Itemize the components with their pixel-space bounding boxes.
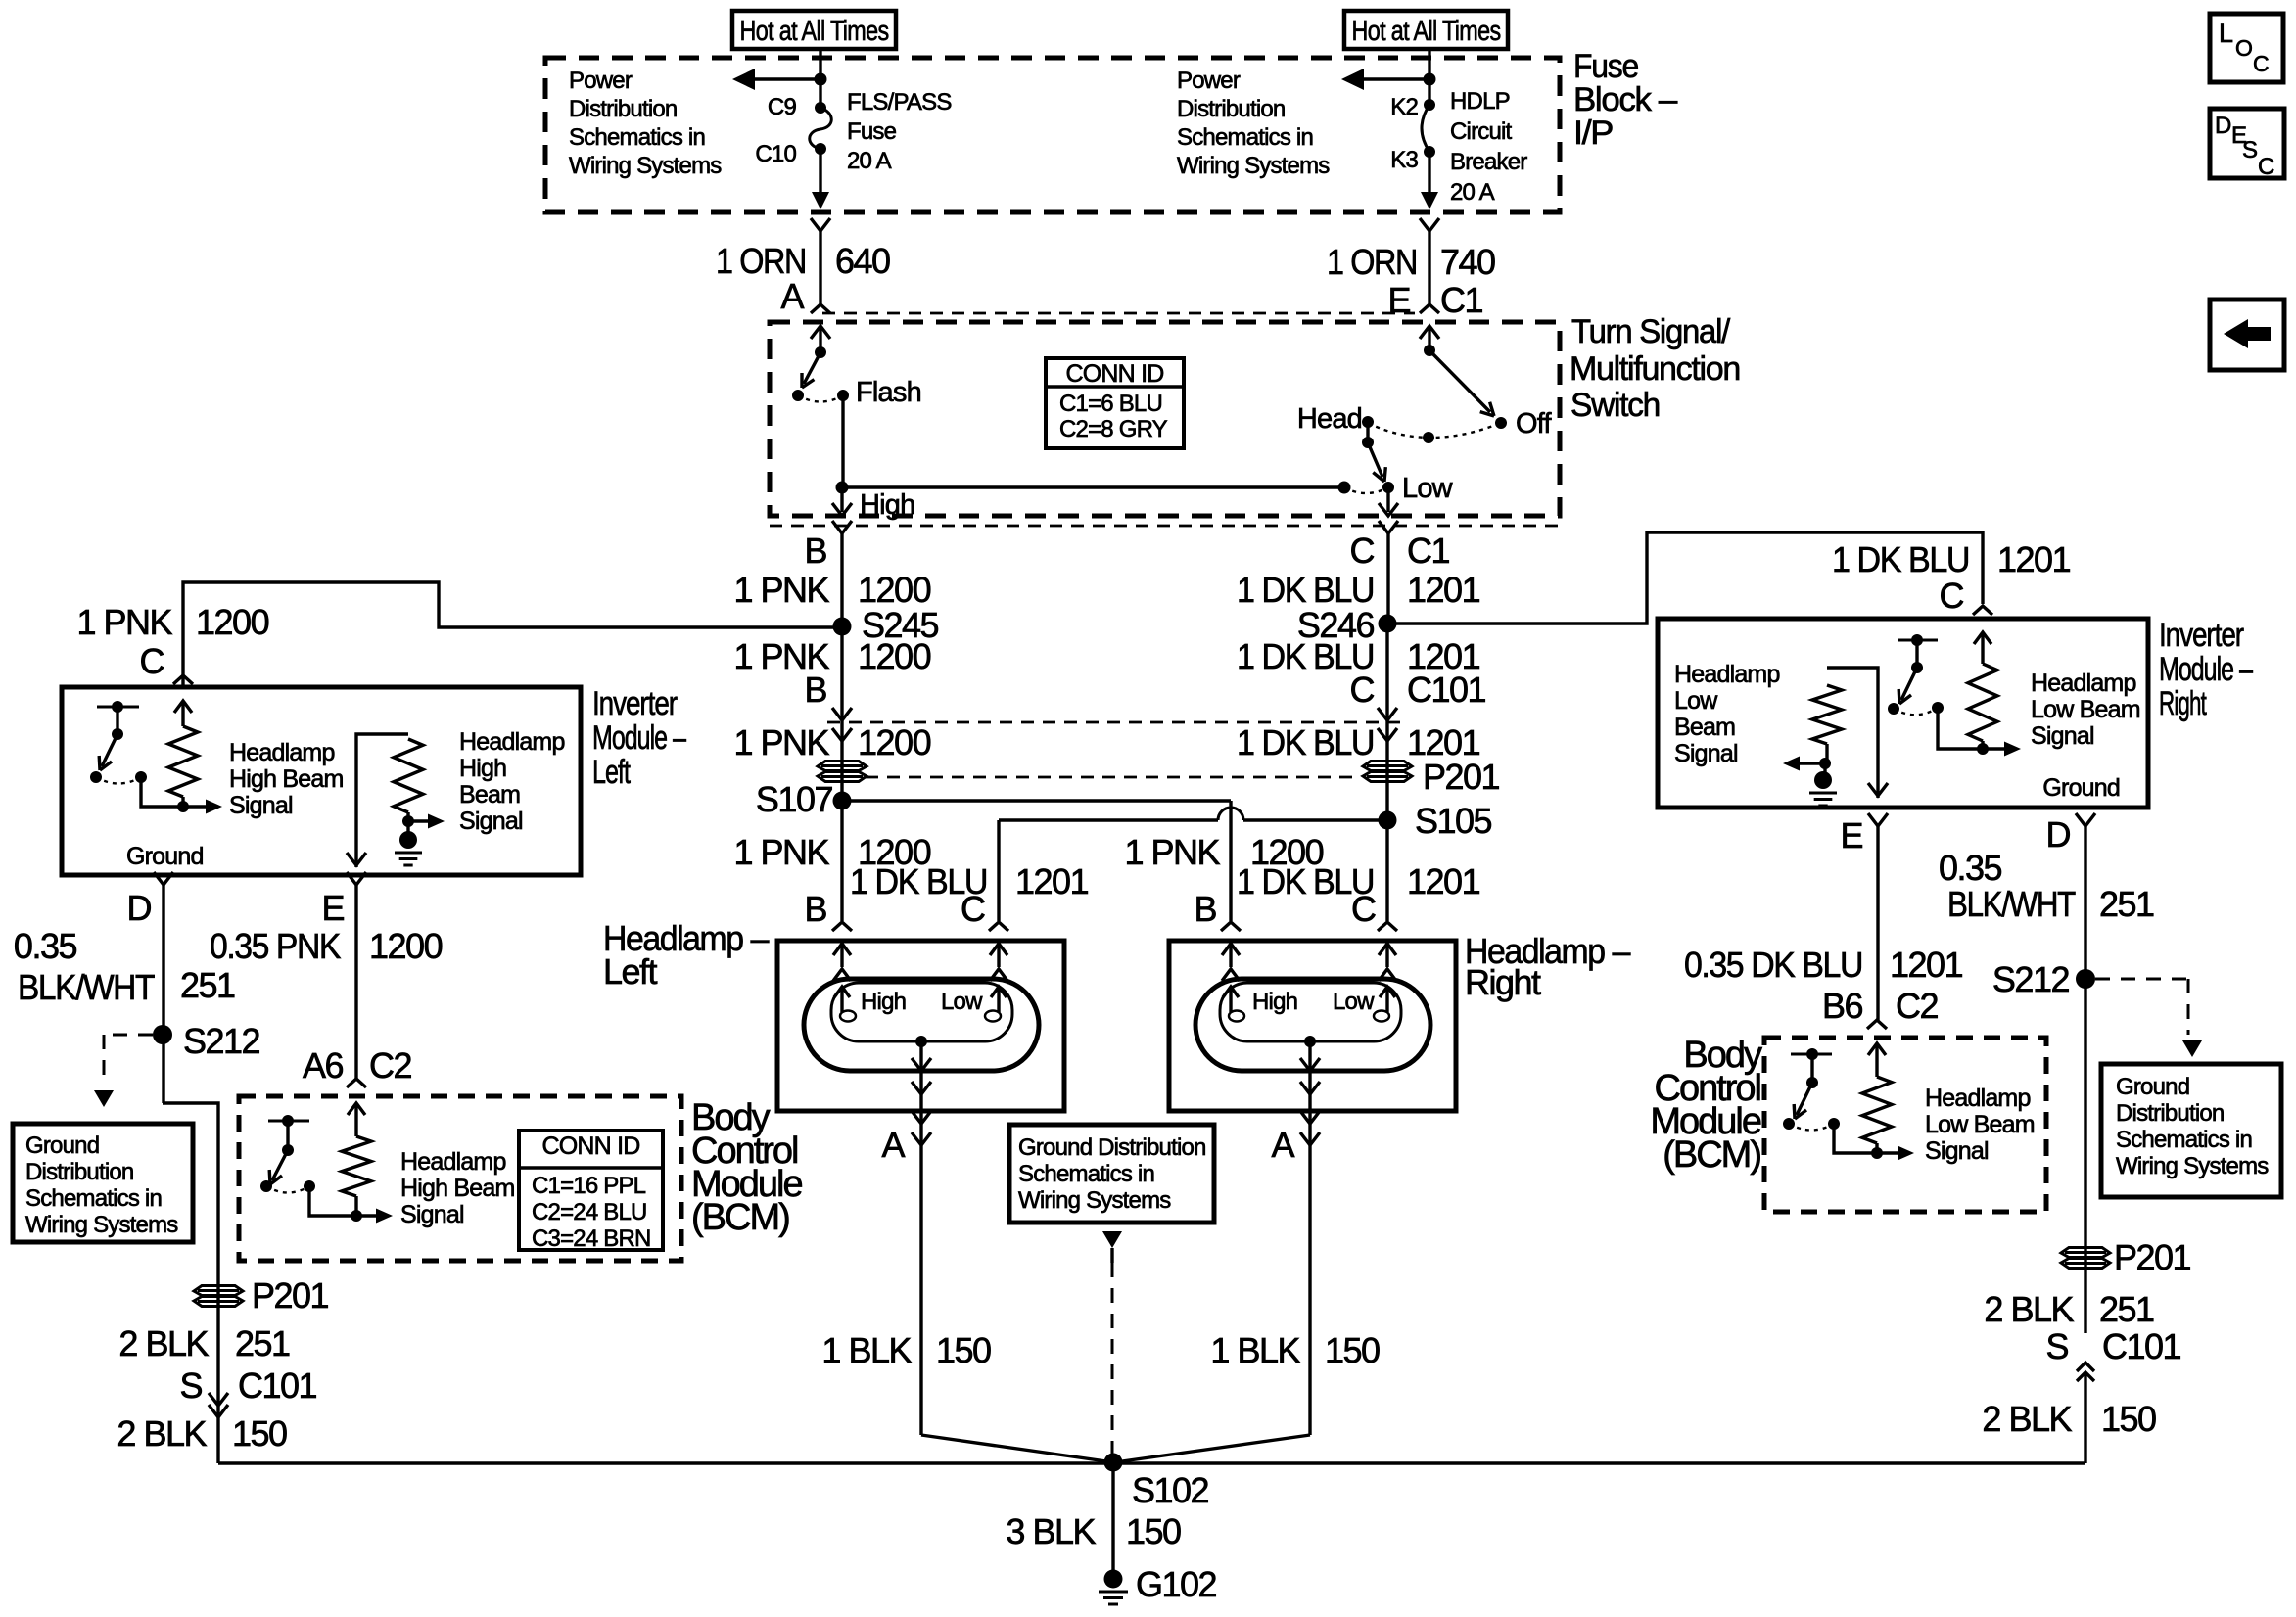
svg-text:1 BLK: 1 BLK <box>1210 1330 1300 1370</box>
svg-text:S: S <box>2242 137 2257 163</box>
svg-text:Signal: Signal <box>459 808 523 835</box>
svg-text:Wiring Systems: Wiring Systems <box>25 1212 178 1238</box>
svg-text:B: B <box>804 670 826 710</box>
svg-text:1 ORN: 1 ORN <box>716 241 806 281</box>
svg-text:1200: 1200 <box>858 722 931 762</box>
svg-text:251: 251 <box>180 965 235 1005</box>
svg-text:S107: S107 <box>756 779 833 819</box>
svg-text:Signal: Signal <box>1925 1137 1989 1165</box>
svg-text:Inverter: Inverter <box>2159 617 2244 654</box>
svg-text:2 BLK: 2 BLK <box>1982 1399 2072 1439</box>
svg-text:1 PNK: 1 PNK <box>733 722 829 762</box>
svg-text:(BCM): (BCM) <box>691 1197 789 1238</box>
svg-text:S102: S102 <box>1132 1470 1209 1510</box>
svg-text:C1=6 BLU: C1=6 BLU <box>1059 391 1162 417</box>
svg-text:Wiring Systems: Wiring Systems <box>1177 153 1330 179</box>
svg-text:Wiring Systems: Wiring Systems <box>1018 1187 1171 1214</box>
svg-text:1 BLK: 1 BLK <box>821 1330 912 1370</box>
svg-text:Fuse: Fuse <box>1573 48 1638 85</box>
svg-text:0.35: 0.35 <box>1939 848 2002 888</box>
svg-text:C2: C2 <box>369 1045 411 1086</box>
svg-text:Ground: Ground <box>2042 774 2120 802</box>
svg-text:Low Beam: Low Beam <box>2031 696 2140 723</box>
svg-text:HDLP: HDLP <box>1450 88 1510 115</box>
svg-text:1 ORN: 1 ORN <box>1327 242 1417 282</box>
svg-text:C1: C1 <box>1440 280 1482 320</box>
svg-text:1200: 1200 <box>858 636 931 676</box>
svg-text:C101: C101 <box>1407 670 1486 710</box>
svg-text:Head: Head <box>1297 403 1362 435</box>
svg-text:Power: Power <box>569 68 633 94</box>
svg-text:Turn Signal/: Turn Signal/ <box>1571 313 1731 350</box>
svg-text:A: A <box>1271 1125 1294 1165</box>
svg-text:Beam: Beam <box>1674 714 1735 741</box>
svg-text:C: C <box>140 641 164 681</box>
svg-text:Signal: Signal <box>400 1201 464 1228</box>
svg-text:BLK/WHT: BLK/WHT <box>1947 884 2076 924</box>
svg-text:Distribution: Distribution <box>1177 96 1285 122</box>
svg-text:Beam: Beam <box>459 781 520 808</box>
svg-text:High: High <box>860 489 914 521</box>
svg-text:1 DK BLU: 1 DK BLU <box>1237 570 1374 610</box>
svg-text:S: S <box>179 1365 202 1406</box>
svg-text:Breaker: Breaker <box>1450 149 1527 175</box>
svg-text:740: 740 <box>1440 242 1495 282</box>
svg-text:0.35 PNK: 0.35 PNK <box>210 926 341 966</box>
svg-text:Low: Low <box>1333 989 1375 1015</box>
svg-text:1 DK BLU: 1 DK BLU <box>1237 722 1374 762</box>
svg-text:(BCM): (BCM) <box>1663 1134 1760 1176</box>
svg-text:Headlamp: Headlamp <box>1674 661 1780 688</box>
svg-text:A: A <box>780 276 804 316</box>
svg-text:1200: 1200 <box>369 926 443 966</box>
svg-text:251: 251 <box>2099 884 2154 924</box>
svg-text:Left: Left <box>592 754 631 791</box>
svg-text:Switch: Switch <box>1570 387 1660 424</box>
svg-text:I/P: I/P <box>1573 115 1613 152</box>
svg-text:150: 150 <box>1325 1330 1380 1370</box>
svg-text:251: 251 <box>2099 1289 2154 1329</box>
svg-text:Flash: Flash <box>856 377 921 408</box>
svg-text:Headlamp: Headlamp <box>459 728 565 756</box>
svg-text:Low: Low <box>1402 473 1454 504</box>
svg-text:High: High <box>861 989 906 1015</box>
svg-text:D: D <box>127 888 152 928</box>
svg-text:B6: B6 <box>1822 986 1863 1026</box>
svg-text:251: 251 <box>235 1323 290 1363</box>
svg-text:Power: Power <box>1177 68 1241 94</box>
svg-text:C: C <box>1351 889 1376 929</box>
svg-text:Schematics in: Schematics in <box>2116 1127 2252 1153</box>
svg-text:CONN ID: CONN ID <box>1066 360 1164 388</box>
svg-text:E: E <box>321 888 344 928</box>
svg-text:High: High <box>1252 989 1297 1015</box>
svg-text:K3: K3 <box>1390 147 1418 173</box>
svg-text:P201: P201 <box>2114 1237 2191 1277</box>
svg-text:C: C <box>1940 576 1964 616</box>
svg-text:1 PNK: 1 PNK <box>733 570 829 610</box>
svg-text:C10: C10 <box>755 141 796 167</box>
svg-text:B: B <box>1194 889 1216 929</box>
svg-text:1 DK BLU: 1 DK BLU <box>1832 539 1969 579</box>
svg-text:640: 640 <box>835 241 890 281</box>
svg-text:0.35 DK BLU: 0.35 DK BLU <box>1684 945 1862 985</box>
svg-text:Schematics in: Schematics in <box>569 124 705 151</box>
svg-text:Block –: Block – <box>1573 81 1677 118</box>
svg-text:Headlamp: Headlamp <box>1925 1085 2031 1112</box>
svg-text:1201: 1201 <box>1997 539 2071 579</box>
svg-text:Schematics in: Schematics in <box>25 1185 162 1212</box>
svg-text:Ground: Ground <box>126 843 204 870</box>
svg-text:Ground: Ground <box>2116 1074 2189 1100</box>
svg-text:20 A: 20 A <box>1450 179 1495 206</box>
svg-text:Hot at All Times: Hot at All Times <box>1352 16 1501 47</box>
svg-text:Wiring Systems: Wiring Systems <box>2116 1153 2269 1179</box>
svg-text:FLS/PASS: FLS/PASS <box>847 89 952 115</box>
svg-text:C2=8 GRY: C2=8 GRY <box>1059 416 1168 442</box>
svg-text:Right: Right <box>2159 685 2207 722</box>
svg-text:O: O <box>2235 35 2252 61</box>
svg-text:Fuse: Fuse <box>847 118 897 145</box>
svg-text:Schematics in: Schematics in <box>1177 124 1313 151</box>
svg-text:Wiring Systems: Wiring Systems <box>569 153 722 179</box>
svg-text:S212: S212 <box>183 1021 260 1061</box>
svg-text:S212: S212 <box>1992 959 2070 999</box>
svg-text:D: D <box>2046 814 2071 855</box>
svg-text:1201: 1201 <box>1015 861 1089 901</box>
svg-text:C2=24 BLU: C2=24 BLU <box>532 1199 647 1225</box>
svg-text:C3=24 BRN: C3=24 BRN <box>532 1225 651 1252</box>
svg-text:C: C <box>2258 154 2274 180</box>
svg-text:High Beam: High Beam <box>400 1175 514 1202</box>
svg-text:2 BLK: 2 BLK <box>117 1413 207 1454</box>
svg-text:Distribution: Distribution <box>2116 1100 2224 1127</box>
svg-text:C: C <box>2253 51 2269 76</box>
svg-text:Distribution: Distribution <box>25 1159 133 1185</box>
svg-text:Headlamp: Headlamp <box>229 739 335 766</box>
svg-text:Circuit: Circuit <box>1450 118 1513 145</box>
svg-text:B: B <box>804 531 826 571</box>
svg-text:C1: C1 <box>1407 531 1449 571</box>
svg-text:150: 150 <box>936 1330 991 1370</box>
svg-text:C: C <box>961 889 985 929</box>
svg-text:Headlamp: Headlamp <box>400 1148 506 1176</box>
svg-text:C101: C101 <box>2102 1326 2181 1366</box>
svg-text:P201: P201 <box>252 1275 329 1316</box>
svg-text:1201: 1201 <box>1407 570 1480 610</box>
svg-text:A6: A6 <box>303 1045 344 1086</box>
svg-text:Ground Distribution: Ground Distribution <box>1018 1134 1206 1161</box>
svg-text:Schematics in: Schematics in <box>1018 1161 1154 1187</box>
svg-text:1 PNK: 1 PNK <box>1124 832 1220 872</box>
svg-text:Signal: Signal <box>229 792 293 819</box>
svg-text:C101: C101 <box>238 1365 317 1406</box>
svg-text:BLK/WHT: BLK/WHT <box>18 967 155 1007</box>
svg-text:Headlamp: Headlamp <box>2031 670 2136 697</box>
svg-text:B: B <box>804 889 826 929</box>
svg-text:A: A <box>881 1125 905 1165</box>
svg-text:CONN ID: CONN ID <box>542 1132 640 1160</box>
svg-text:Hot at All Times: Hot at All Times <box>740 16 889 47</box>
svg-text:Signal: Signal <box>1674 740 1738 767</box>
svg-text:Right: Right <box>1465 962 1541 1002</box>
svg-text:Module –: Module – <box>592 719 686 757</box>
svg-text:D: D <box>2215 113 2231 139</box>
svg-text:0.35: 0.35 <box>14 926 77 966</box>
svg-text:150: 150 <box>232 1413 287 1454</box>
svg-text:P201: P201 <box>1423 757 1500 797</box>
svg-text:C9: C9 <box>768 94 797 120</box>
svg-text:Low: Low <box>1674 687 1718 715</box>
svg-text:Left: Left <box>603 951 658 992</box>
svg-text:1200: 1200 <box>858 570 931 610</box>
svg-text:C2: C2 <box>1896 986 1938 1026</box>
svg-text:C1=16 PPL: C1=16 PPL <box>532 1173 646 1199</box>
svg-text:1 PNK: 1 PNK <box>76 602 172 642</box>
svg-text:1 PNK: 1 PNK <box>733 832 829 872</box>
svg-text:L: L <box>2219 19 2233 48</box>
svg-text:S: S <box>2045 1326 2068 1366</box>
svg-text:1201: 1201 <box>1407 861 1480 901</box>
svg-text:G102: G102 <box>1136 1564 1217 1604</box>
svg-text:1200: 1200 <box>196 602 269 642</box>
svg-text:Module –: Module – <box>2159 651 2253 688</box>
svg-text:High Beam: High Beam <box>229 765 343 793</box>
svg-text:20 A: 20 A <box>847 148 892 174</box>
svg-text:2 BLK: 2 BLK <box>1984 1289 2074 1329</box>
svg-text:150: 150 <box>1126 1511 1181 1551</box>
svg-text:Low: Low <box>941 989 983 1015</box>
svg-text:Signal: Signal <box>2031 722 2094 750</box>
svg-text:Low Beam: Low Beam <box>1925 1111 2035 1138</box>
svg-text:High: High <box>459 755 506 782</box>
svg-text:E: E <box>1840 815 1862 855</box>
svg-text:Ground: Ground <box>25 1132 99 1159</box>
svg-text:2 BLK: 2 BLK <box>118 1323 209 1363</box>
svg-text:C: C <box>1350 531 1375 571</box>
svg-text:K2: K2 <box>1390 94 1418 120</box>
svg-text:1201: 1201 <box>1890 945 1963 985</box>
svg-text:Off: Off <box>1516 408 1552 439</box>
svg-text:C: C <box>1350 670 1375 710</box>
svg-text:Multifunction: Multifunction <box>1570 350 1740 388</box>
svg-text:S105: S105 <box>1415 801 1492 841</box>
svg-text:Distribution: Distribution <box>569 96 677 122</box>
svg-text:150: 150 <box>2101 1399 2156 1439</box>
svg-text:Inverter: Inverter <box>592 685 678 722</box>
svg-text:3 BLK: 3 BLK <box>1006 1511 1096 1551</box>
